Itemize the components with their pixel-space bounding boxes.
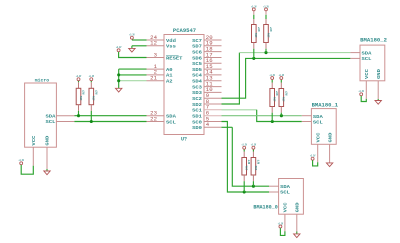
wire VCC BMA180_0	[280, 228, 285, 235]
svg-text:SD7: SD7	[192, 44, 202, 50]
ground BMA180_1	[326, 163, 332, 167]
svg-text:10k: 10k	[254, 165, 258, 170]
junction A2	[117, 79, 120, 82]
pin SC0 5	[204, 121, 222, 123]
svg-text:SD3: SD3	[192, 90, 202, 96]
supply +3.3V BMA180_0	[278, 222, 284, 228]
svg-text:SD0: SD0	[192, 125, 202, 131]
svg-text:SD5: SD5	[192, 67, 202, 73]
BMA180_0 pin VCC	[284, 214, 286, 231]
pin A1 2	[147, 74, 165, 76]
junction SCL/R2	[90, 120, 93, 123]
svg-text:R?: R?	[95, 89, 98, 94]
ground Vss	[129, 46, 135, 52]
micro pin GND	[46, 147, 48, 169]
wire VCC micro to +3.3V	[21, 165, 33, 174]
svg-text:R?: R?	[270, 26, 273, 31]
accel BMA180_0	[253, 179, 303, 215]
svg-text:SC7: SC7	[192, 38, 202, 44]
op IC PCA9547 U1	[164, 28, 204, 143]
micro pin SDA	[56, 115, 74, 117]
svg-text:Vss: Vss	[166, 44, 176, 50]
resistor R7 (BMA1 SCL pullup)	[270, 80, 279, 122]
supply +3.3V micro	[19, 159, 25, 165]
svg-text:SC2: SC2	[192, 96, 202, 102]
svg-text:SC5: SC5	[192, 61, 202, 67]
svg-text:A0: A0	[166, 67, 173, 73]
pin SD6 17	[204, 57, 222, 59]
svg-text:12: 12	[150, 41, 157, 47]
svg-text:SC0: SC0	[192, 119, 202, 125]
svg-text:10k: 10k	[273, 97, 277, 102]
BMA180_1 pin VCC	[317, 144, 319, 162]
svg-text:+3.3V: +3.3V	[279, 74, 285, 77]
svg-text:BMA180_2: BMA180_2	[360, 38, 387, 44]
wire RESET	[119, 52, 147, 58]
svg-text:VCC: VCC	[283, 202, 289, 212]
svg-text:BMA180_1: BMA180_1	[312, 102, 339, 108]
pin SC2 9	[204, 97, 222, 99]
pin SC7 20	[204, 39, 222, 41]
junction SDA1/R8	[280, 114, 283, 117]
BMA180_0 pin SDA	[269, 185, 279, 187]
svg-text:+3.3V: +3.3V	[19, 159, 25, 162]
supply +3.3V R2 (micro SCL pullup)	[89, 75, 95, 81]
supply +3.3V R4 (BMA0 SDA pullup)	[251, 144, 257, 150]
wire A-gnd vertical	[118, 69, 120, 88]
pin SD1 6	[204, 115, 222, 117]
resistor R5 (BMA2 SCL pullup)	[252, 11, 261, 59]
wire A0	[119, 68, 147, 70]
supply +3.3V R6 (BMA2 SDA pullup)	[263, 5, 269, 11]
supply +3.3V R8 (BMA1 SDA pullup)	[279, 74, 285, 80]
svg-text:SCL: SCL	[313, 120, 323, 126]
svg-text:R?: R?	[258, 26, 261, 31]
accel BMA180_2	[360, 38, 387, 81]
svg-text:A2: A2	[166, 79, 173, 85]
svg-text:SCL: SCL	[46, 119, 56, 125]
wire A2	[119, 80, 147, 82]
BMA180_2 pin SCL	[350, 57, 360, 59]
wire net SCL (micro to PCA9547)	[74, 121, 146, 123]
svg-text:SDA: SDA	[313, 114, 323, 120]
ground BMA180_2	[375, 99, 381, 104]
micro pin VCC	[32, 147, 34, 166]
svg-text:+3.3V: +3.3V	[242, 144, 248, 147]
junction SDA2/R6	[264, 51, 267, 54]
ground micro	[44, 169, 50, 175]
pin SC3 11	[204, 86, 222, 88]
pin RESET 3	[147, 57, 165, 59]
pin SCL 22	[147, 121, 165, 123]
junction SCL1/R7	[271, 120, 274, 123]
pin SC6 18	[204, 51, 222, 53]
svg-text:A1: A1	[166, 73, 173, 79]
supply +3.3V BMA180_2	[359, 90, 365, 96]
pin SD2 8	[204, 103, 222, 105]
micro pin SCL	[56, 121, 74, 123]
svg-text:R?: R?	[83, 89, 86, 94]
supply +3.3V R7 (BMA1 SCL pullup)	[270, 74, 276, 80]
BMA180_2 pin GND	[377, 81, 379, 99]
svg-text:R?: R?	[257, 159, 260, 164]
svg-text:GND: GND	[45, 135, 51, 145]
wire A1	[119, 74, 147, 76]
svg-text:micro: micro	[35, 78, 50, 84]
wire SD1 to BMA180_1 SDA	[222, 115, 302, 117]
svg-text:VCC: VCC	[364, 69, 370, 79]
svg-text:SC1: SC1	[192, 108, 202, 114]
svg-text:+3.3V: +3.3V	[251, 144, 257, 147]
svg-text:10k: 10k	[254, 33, 258, 38]
wire SC1 to BMA180_1 SCL	[222, 109, 257, 111]
wire Vdd	[132, 39, 147, 41]
supply +3.3V R3 (BMA0 SCL pullup)	[242, 144, 248, 150]
ground A pins	[116, 88, 122, 92]
wire SC2 to BMA180_2 SCL	[222, 58, 351, 98]
supply +3.3V RESET	[116, 46, 122, 52]
svg-text:SD4: SD4	[192, 79, 202, 85]
svg-text:SDA: SDA	[280, 184, 290, 190]
svg-text:+3.3V: +3.3V	[116, 46, 122, 49]
pin SC4 14	[204, 74, 222, 76]
pin A2 21	[147, 80, 165, 82]
pin SC5 16	[204, 62, 222, 64]
svg-text:+3.3V: +3.3V	[270, 74, 276, 77]
accel BMA180_1	[311, 102, 338, 144]
svg-text:SC3: SC3	[192, 84, 202, 90]
pin SD4 13	[204, 80, 222, 82]
resistor R2 (micro SCL pullup)	[89, 81, 98, 122]
ground BMA180_0	[294, 232, 300, 238]
junction SCL2/R5	[252, 57, 255, 60]
resistor R3 (BMA0 SCL pullup)	[242, 149, 251, 192]
svg-text:SCL: SCL	[362, 56, 372, 62]
svg-text:SCL: SCL	[166, 119, 176, 125]
pin SD5 15	[204, 68, 222, 70]
svg-text:22: 22	[150, 116, 157, 122]
pin SD7 19	[204, 45, 222, 47]
pin SD3 10	[204, 91, 222, 93]
wire SD2 to BMA180_2 SDA	[222, 53, 240, 104]
supply +3.3V BMA180_1	[310, 155, 316, 161]
wire VCC BMA180_1	[313, 160, 318, 166]
BMA180_2 pin VCC	[365, 81, 367, 99]
svg-text:21: 21	[150, 76, 157, 82]
svg-text:+3.3V: +3.3V	[129, 34, 135, 37]
svg-text:GND: GND	[376, 69, 382, 79]
svg-text:3: 3	[154, 52, 157, 58]
micro U2	[25, 78, 57, 148]
svg-text:GND: GND	[327, 132, 333, 142]
svg-text:SD6: SD6	[192, 55, 202, 61]
junction SDA/R1	[77, 114, 80, 117]
svg-text:SD1: SD1	[192, 114, 202, 120]
resistor R8 (BMA1 SDA pullup)	[279, 80, 288, 116]
BMA180_0 pin SCL	[269, 191, 279, 193]
svg-text:RESET: RESET	[166, 55, 183, 61]
svg-text:GND: GND	[295, 202, 301, 212]
BMA180_1 pin SCL	[302, 121, 312, 123]
supply +3.3V R5 (BMA2 SCL pullup)	[251, 5, 257, 11]
resistor R6 (BMA2 SDA pullup)	[264, 11, 273, 53]
svg-text:SD2: SD2	[192, 102, 202, 108]
svg-text:SCL: SCL	[280, 190, 290, 196]
svg-text:VCC: VCC	[31, 135, 37, 145]
wire Vss	[132, 45, 147, 47]
pin SDA 23	[147, 115, 165, 117]
svg-text:+3.3V: +3.3V	[359, 90, 365, 93]
pin Vdd 24	[147, 39, 165, 41]
svg-text:10k: 10k	[245, 165, 249, 170]
svg-text:+3.3V: +3.3V	[278, 222, 284, 225]
svg-text:+3.3V: +3.3V	[251, 5, 257, 8]
svg-text:+3.3V: +3.3V	[76, 75, 82, 78]
svg-text:PCA9547: PCA9547	[173, 28, 196, 34]
svg-text:Vdd: Vdd	[166, 38, 176, 44]
BMA180_1 pin GND	[329, 144, 331, 162]
pin SD0 4	[204, 126, 222, 128]
svg-text:SC4: SC4	[192, 73, 202, 79]
svg-text:4: 4	[206, 122, 209, 128]
svg-text:10k: 10k	[266, 33, 270, 38]
svg-text:10k: 10k	[92, 96, 96, 101]
pin SC1 7	[204, 109, 222, 111]
pin Vss 12	[147, 45, 165, 47]
BMA180_0 pin GND	[296, 214, 298, 231]
wire SC0 to BMA180_0 SCL	[222, 122, 270, 193]
svg-text:+3.3V: +3.3V	[89, 75, 95, 78]
resistor R4 (BMA0 SDA pullup)	[251, 149, 260, 186]
svg-text:SDA: SDA	[46, 113, 56, 119]
svg-text:R?: R?	[285, 90, 288, 95]
svg-text:VCC: VCC	[315, 132, 321, 142]
wire SD0 to BMA180_0 SDA	[222, 126, 233, 128]
svg-text:10k: 10k	[79, 96, 83, 101]
svg-text:10k: 10k	[282, 97, 286, 102]
svg-text:BMA180_0: BMA180_0	[253, 204, 277, 210]
pin A0 1	[147, 68, 165, 70]
svg-text:SDA: SDA	[166, 114, 176, 120]
junction SCL0/R3	[243, 190, 246, 193]
svg-text:+3.3V: +3.3V	[263, 5, 269, 8]
svg-text:+3.3V: +3.3V	[310, 155, 316, 158]
svg-text:U?: U?	[181, 137, 187, 143]
wire net SDA (micro to PCA9547)	[74, 115, 146, 117]
junction SDA0/R4	[252, 185, 255, 188]
BMA180_2 pin SDA	[350, 52, 360, 54]
BMA180_1 pin SDA	[302, 115, 312, 117]
supply +3.3V R1 (micro SDA pullup)	[76, 75, 82, 81]
junction A1	[117, 73, 120, 76]
svg-text:SDA: SDA	[362, 50, 372, 56]
resistor R1 (micro SDA pullup)	[76, 81, 85, 116]
svg-text:SC6: SC6	[192, 49, 202, 55]
supply +3.3V Vdd	[129, 34, 135, 40]
wire VCC BMA180_2	[361, 96, 366, 102]
